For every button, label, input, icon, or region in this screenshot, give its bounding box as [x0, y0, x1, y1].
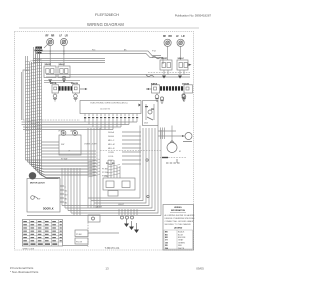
dashed drop — [87, 222, 89, 247]
svg-text:T-8017C-01: T-8017C-01 — [105, 246, 120, 250]
wire L2 bus — [36, 54, 161, 58]
notes legend box — [163, 205, 195, 251]
header rule — [19, 27, 199, 29]
svg-text:MDL-C: MDL-C — [108, 140, 115, 142]
oven sensor wires left-mid — [41, 142, 96, 157]
wire L2 run — [46, 76, 190, 78]
svg-text:P3 RD: P3 RD — [102, 176, 108, 178]
svg-text:LEGEND: LEGEND — [174, 228, 183, 230]
svg-text:BROWN: BROWN — [178, 237, 186, 239]
chassis ground G9 — [62, 80, 66, 83]
svg-text:ALL WIRING SHOWN 18 GA WIRE: ALL WIRING SHOWN 18 GA WIRE — [165, 214, 196, 217]
surface indicator light L1 — [46, 36, 55, 67]
arrow terminal — [189, 64, 192, 66]
ground G4 — [155, 93, 159, 101]
svg-text:Publication No: 5995418287: Publication No: 5995418287 — [175, 13, 212, 17]
svg-text:UNLESS OTHERWISE SPECIFIED: UNLESS OTHERWISE SPECIFIED — [165, 218, 196, 220]
convection motor M2 — [158, 128, 192, 142]
relay board K2 — [143, 101, 159, 126]
wire — [88, 232, 119, 234]
wire neutral N — [46, 74, 190, 76]
chassis ground cluster — [124, 224, 139, 234]
svg-text:GRAY: GRAY — [178, 239, 184, 242]
svg-text:M1: M1 — [65, 198, 68, 200]
infinite switch S1 — [44, 64, 56, 77]
svg-text:SECURELY TO THE CHASSIS: SECURELY TO THE CHASSIS — [165, 223, 192, 226]
svg-text:SW-RF: SW-RF — [45, 64, 52, 66]
svg-text:RR: RR — [51, 36, 55, 38]
harness bundle — [22, 47, 42, 176]
junction node 2 — [147, 195, 149, 197]
svg-text:RED: RED — [178, 245, 183, 247]
svg-text:WIRING DIAGRAM: WIRING DIAGRAM — [87, 22, 124, 27]
svg-text:FLEF326ECH: FLEF326ECH — [95, 12, 119, 17]
svg-text:BLACK: BLACK — [178, 231, 185, 234]
surface indicator light L3 — [163, 36, 172, 60]
wire stub — [44, 44, 50, 48]
svg-text:INFORMATION: INFORMATION — [171, 209, 186, 212]
wire dashed ground run — [148, 72, 190, 74]
svg-text:MDL-N: MDL-N — [108, 148, 115, 150]
svg-text:DLB-B: DLB-B — [108, 136, 115, 138]
bake element — [146, 83, 193, 94]
connector block bottom — [119, 209, 137, 219]
infinite switch S4 — [177, 58, 188, 70]
svg-text:DOOR LK: DOOR LK — [43, 209, 54, 211]
terminal block TB1 — [88, 215, 100, 222]
electronic oven control EOC — [80, 101, 141, 114]
component box B2 — [75, 238, 88, 244]
svg-text:P7 SW: P7 SW — [61, 159, 67, 161]
svg-text:MOTOR LATCH: MOTOR LATCH — [30, 182, 45, 185]
wire into EOC — [23, 119, 80, 121]
wire run left group — [33, 58, 105, 60]
bundle hatch texture — [88, 160, 120, 178]
svg-text:P9 BK: P9 BK — [76, 234, 82, 236]
harness fan-out — [26, 160, 97, 179]
svg-text:WIRING: WIRING — [174, 207, 182, 209]
svg-text:MDL-M: MDL-M — [108, 144, 115, 146]
harness head connector — [35, 47, 43, 54]
EOC pin labels — [84, 117, 138, 118]
vertical wires door side — [62, 168, 80, 216]
svg-text:SW-LF: SW-LF — [59, 64, 66, 66]
svg-text:DLB: DLB — [144, 123, 149, 125]
svg-text:WIRE CODE: WIRE CODE — [23, 249, 35, 251]
vertical drop wires center — [88, 128, 100, 208]
relay module bottom — [103, 176, 135, 196]
bottom horizontal run — [27, 215, 161, 217]
wire — [33, 60, 105, 62]
svg-text:OVEN: OVEN — [58, 131, 64, 133]
ground G10 — [74, 93, 78, 101]
svg-text:LR: LR — [65, 36, 68, 38]
wire — [44, 81, 73, 83]
infinite switch S3 — [160, 58, 172, 70]
vertical harness right with bends — [62, 126, 161, 216]
chassis ground G8 — [48, 80, 52, 83]
mid terminal labels column — [108, 131, 141, 166]
ground G3 — [53, 93, 57, 101]
svg-text:DLB-A: DLB-A — [108, 131, 115, 134]
svg-text:BLUE: BLUE — [178, 234, 184, 236]
svg-text:CLOCK 5V: CLOCK 5V — [100, 109, 111, 111]
svg-text:ELECTRONIC OVEN CONTROL (EOC): ELECTRONIC OVEN CONTROL (EOC) — [91, 102, 128, 104]
vertical bundle above relay module — [108, 160, 120, 178]
svg-text:LIGHT: LIGHT — [118, 204, 125, 206]
chassis ground G2 — [178, 70, 184, 79]
svg-text:P10 W: P10 W — [76, 242, 82, 244]
ground G5 — [182, 93, 186, 101]
splice loop — [62, 76, 66, 78]
svg-text:CAVITY: CAVITY — [95, 206, 103, 209]
splice P1 — [92, 49, 163, 64]
oven motor M1 — [160, 126, 186, 164]
svg-text:M2: M2 — [65, 202, 68, 204]
broil element — [50, 82, 88, 93]
ground G7 — [182, 94, 186, 101]
svg-text:COOL: COOL — [108, 156, 115, 158]
wire color table — [22, 220, 62, 246]
wire — [44, 79, 80, 81]
oven light box — [58, 130, 98, 161]
svg-text:P1 BK: P1 BK — [102, 169, 108, 171]
svg-text:SW: SW — [61, 144, 64, 146]
infinite switch S2 — [58, 64, 70, 77]
ground cluster leads — [127, 219, 137, 230]
svg-text:CONNECT ALL GROUND LEADS: CONNECT ALL GROUND LEADS — [165, 220, 194, 223]
wire — [33, 62, 105, 64]
harness hatch texture — [25, 59, 42, 158]
diagram border frame — [15, 32, 194, 251]
svg-text:GREEN: GREEN — [178, 242, 185, 244]
surface indicator light L2 — [59, 36, 68, 67]
svg-text:SW-RF: SW-RF — [161, 58, 168, 60]
svg-text:SW-LF: SW-LF — [178, 58, 185, 60]
component box B1 — [75, 230, 88, 237]
svg-text:P2 WH: P2 WH — [102, 172, 109, 174]
wire L1 bus — [36, 51, 161, 56]
svg-text:CONV: CONV — [108, 152, 114, 154]
dashed sensor wire — [100, 150, 162, 152]
junction node — [146, 159, 148, 161]
svg-text:LAMP: LAMP — [70, 130, 76, 133]
wire from table — [63, 245, 88, 247]
splice wave — [146, 75, 154, 78]
door lock motor assembly — [27, 172, 68, 212]
svg-text:13: 13 — [105, 267, 109, 271]
ground G6 — [160, 97, 164, 104]
svg-text:SW: SW — [37, 199, 40, 201]
svg-text:P13: P13 — [92, 49, 95, 51]
EOC pin row — [85, 114, 137, 117]
svg-text:09/05: 09/05 — [196, 267, 204, 271]
EOC wiring runs — [22, 119, 138, 130]
svg-text:LR: LR — [182, 36, 185, 38]
chassis ground G1 — [162, 70, 168, 79]
svg-text:* Non-Illustrated Parts: * Non-Illustrated Parts — [10, 270, 39, 274]
surface indicator light L4 — [176, 36, 185, 60]
svg-text:WHITE: WHITE — [178, 248, 185, 250]
svg-text:RR: RR — [169, 36, 173, 38]
